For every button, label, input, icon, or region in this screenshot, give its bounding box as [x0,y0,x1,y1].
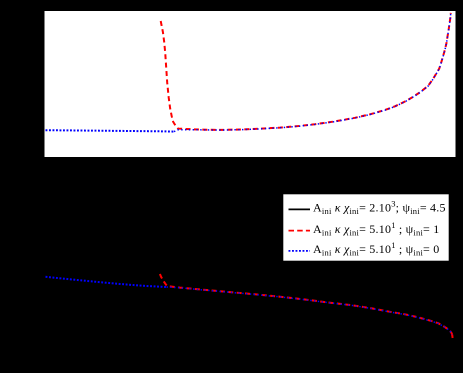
bottom panel: blue dotted curve, solo left branch [46,277,167,287]
legend box [283,194,450,262]
bottom red curve end cap [451,335,453,338]
svg-text:Aini κ χini= 2.103; ψini= 4.5: Aini κ χini= 2.103; ψini= 4.5 [313,198,446,216]
top panel: red dashed curve (steep drop then rising branch) [161,13,451,130]
legend sample: solid black line [289,208,311,210]
legend sample: blue dotted line [289,250,311,252]
top panel: blue dotted curve, solo flat branch [46,130,175,131]
top panel white interior [45,11,456,157]
bottom panel: blue dotted curve, overlapping red branch [167,287,453,337]
legend sample: red dashed line [289,230,311,232]
bottom panel: red dashed curve [160,274,453,337]
top panel: blue dotted curve, overlapping red rising branch [174,12,451,132]
